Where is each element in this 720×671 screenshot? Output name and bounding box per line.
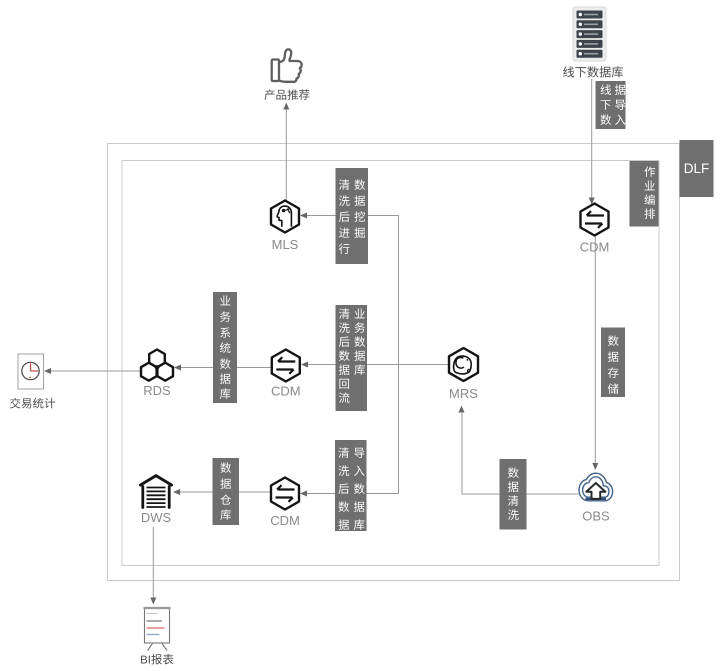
label OBS [582,509,610,524]
svg-text:OBS: OBS [582,509,610,524]
wire DWS down to BI [150,527,156,605]
icon OBS cloud [581,475,611,499]
label CDM top [580,240,610,255]
BI board icon [144,608,171,651]
icon DWS [141,476,172,508]
label CDM bottom [270,513,300,528]
op icon CDM middle [272,350,300,382]
clock icon 交易统计 [18,354,44,389]
svg-text:DLF: DLF [684,161,710,176]
wire MRS to CDM [301,362,450,368]
icon MRS [449,348,478,381]
wire CDM to OBS [592,236,598,470]
wire CDM to DWS [173,489,271,495]
label box 清洗后数据导入数据库 [335,440,367,531]
svg-text:MRS: MRS [449,386,478,401]
label 线下数据库 [563,66,623,77]
wire CDM to RDS [174,365,272,371]
label 交易统计 [10,398,55,409]
server icon 线下数据库 [573,7,606,61]
outer frame [108,144,680,581]
icon MLS [271,201,299,233]
label box 清洗后数据回流业务数据库 [336,305,368,411]
bus vertical with branches to MLS and CDM [300,213,399,497]
svg-text:CDM: CDM [270,513,300,528]
label box 业务系统数据库 [213,292,237,403]
wire RDS to clock [44,368,141,374]
label box 清洗后进行数据挖掘 [336,168,369,264]
wire MLS up to thumb [283,103,289,201]
label box 数据仓库 [213,458,240,525]
label box 作业编排 [630,161,659,227]
svg-text:MLS: MLS [272,237,299,252]
DLF box [680,140,714,197]
inner frame [122,161,659,566]
label 产品推荐 [264,89,309,100]
label box 数据清洗 [500,459,527,530]
label RDS [143,383,171,398]
wire server to CDM [589,79,595,205]
label box 线下数据导入 [596,81,626,129]
op icon CDM bottom [271,478,299,510]
op icon CDM top [581,204,609,236]
label MLS [272,237,299,252]
icon RDS [141,350,173,381]
svg-text:RDS: RDS [143,383,171,398]
label box 数据存储 [601,328,625,398]
label CDM middle [271,384,301,399]
svg-text:DWS: DWS [141,510,172,525]
thumb icon 产品推荐 [272,49,302,81]
label MRS [449,386,478,401]
svg-text:CDM: CDM [580,240,610,255]
svg-text:CDM: CDM [271,384,301,399]
label DWS [141,510,172,525]
label BI报表 [141,654,173,665]
wire OBS to MRS [459,406,579,495]
